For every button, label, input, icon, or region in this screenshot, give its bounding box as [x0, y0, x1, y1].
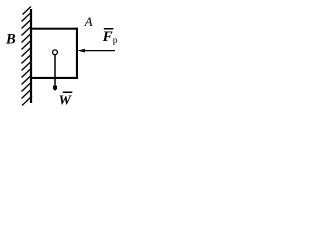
svg-text:F: F	[102, 29, 113, 45]
block bottom edge	[31, 77, 78, 79]
svg-text:A: A	[84, 14, 93, 29]
wall line	[30, 9, 32, 103]
svg-text:p: p	[113, 36, 118, 46]
weight arrow W	[54, 55, 56, 87]
svg-text:W: W	[59, 94, 73, 109]
block right edge	[76, 28, 78, 79]
center circle	[53, 50, 58, 55]
wall hatching	[22, 7, 33, 106]
force arrow Fp	[82, 50, 115, 52]
svg-text:B: B	[5, 32, 16, 48]
block top edge	[31, 28, 78, 30]
